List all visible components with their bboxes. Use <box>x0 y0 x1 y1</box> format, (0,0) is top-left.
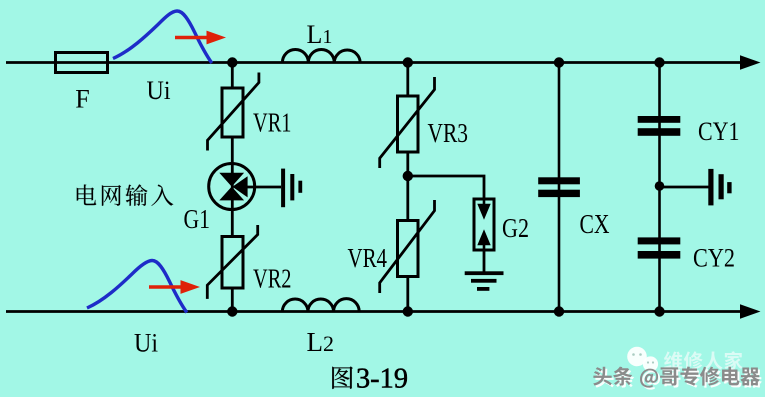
ground (CY, rotated) <box>708 169 731 206</box>
capacitor CY2 <box>638 237 681 258</box>
gas discharge tube G1 <box>209 164 281 210</box>
wire CX branch vertical <box>558 63 561 312</box>
node CY1/CY2 junction <box>655 181 665 191</box>
surge waveform Ui (bottom) <box>87 260 187 312</box>
wire branch-1 vertical <box>231 63 234 312</box>
svg-text:L2: L2 <box>307 327 335 357</box>
svg-text:VR4: VR4 <box>348 243 388 273</box>
svg-text:G2: G2 <box>502 213 529 243</box>
svg-text:Ui: Ui <box>134 329 158 358</box>
node bottom rail / branch 2 <box>403 306 413 316</box>
svg-text:G1: G1 <box>184 204 211 234</box>
inductor L1 <box>282 50 360 63</box>
arrow bottom rail output <box>740 304 761 318</box>
varistor VR4 <box>380 200 435 293</box>
surge arrester G2 <box>474 199 494 250</box>
node top rail / CY <box>654 57 664 67</box>
inductor L2 <box>282 299 359 312</box>
watermark logo <box>627 347 658 372</box>
ground (G2) <box>465 271 504 291</box>
svg-text:F: F <box>75 85 89 114</box>
wire junction to CY ground <box>660 186 709 189</box>
wire G2 to ground <box>483 250 486 272</box>
node top rail / branch 2 <box>403 57 413 67</box>
watermark 头条@哥专修电器 <box>595 369 762 390</box>
node bottom rail / branch 1 <box>227 306 237 316</box>
label 电网输入 (grid input) <box>77 184 174 206</box>
arrow surge direction (top) <box>175 31 226 45</box>
caption 图3-19 <box>332 366 353 388</box>
ground (G1, rotated) <box>281 169 302 208</box>
surge waveform Ui (top) <box>113 11 212 63</box>
wire top rail <box>6 61 741 64</box>
wire CY branch vertical <box>658 63 661 312</box>
varistor VR1 <box>208 73 259 151</box>
watermark 维修人家 <box>664 351 743 370</box>
svg-text:VR2: VR2 <box>253 264 292 294</box>
node top rail / branch 1 <box>227 57 237 67</box>
varistor VR2 <box>207 225 257 299</box>
arrow surge direction (bottom) <box>149 280 200 294</box>
node bottom rail / CX <box>554 306 564 316</box>
varistor VR3 <box>380 77 435 168</box>
svg-text:CY1: CY1 <box>698 117 740 146</box>
svg-text:Ui: Ui <box>147 76 171 105</box>
wire bottom rail <box>6 310 741 313</box>
svg-text:CY2: CY2 <box>693 244 735 273</box>
svg-text:VR3: VR3 <box>428 118 469 148</box>
arrow top rail output <box>740 55 761 69</box>
wire branch-2 vertical <box>406 63 409 312</box>
node bottom rail / CY <box>654 306 664 316</box>
svg-text:3-19: 3-19 <box>356 364 408 395</box>
wire junction to G2 <box>408 176 484 199</box>
capacitor CX <box>538 177 580 197</box>
svg-text:VR1: VR1 <box>253 108 292 138</box>
capacitor CY1 <box>638 116 681 136</box>
fuse F <box>56 53 108 73</box>
node top rail / CX <box>554 57 564 67</box>
svg-text:CX: CX <box>580 209 610 239</box>
node VR3/VR4 junction <box>403 171 413 181</box>
